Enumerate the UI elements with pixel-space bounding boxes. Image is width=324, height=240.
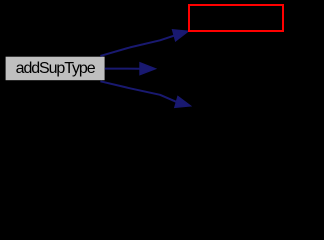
wire: edge to hidden node (bottom) [100,81,176,102]
arrowhead of top edge [172,30,188,42]
arrowhead of middle edge [140,63,156,75]
wire: edge to hidden node (middle) [105,68,140,70]
node: truncated callee (red outline, black-on-black label) [189,5,283,31]
node addSupType (current function, grey fill) [6,57,105,80]
svg-text:addSupType: addSupType [16,60,96,77]
wire: edge to truncated node (top) [100,35,175,56]
arrowhead of bottom edge [175,96,191,107]
